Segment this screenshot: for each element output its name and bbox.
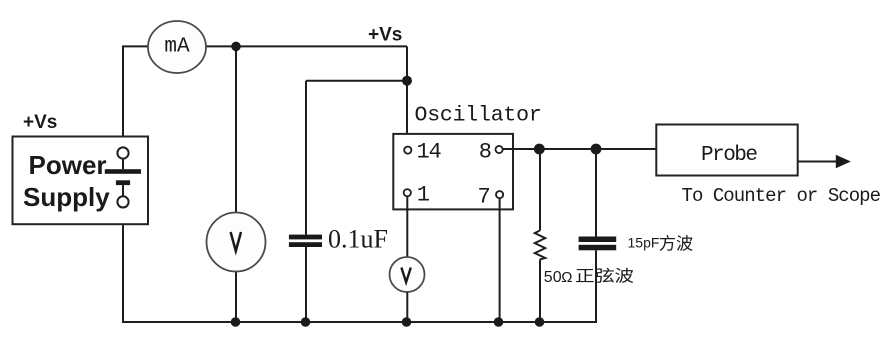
wire: +Vs vertical drop to oscillator pin 14 [406,46,408,146]
wire: resistor branch upper segment [539,149,541,230]
wire: top rail, left segment to ammeter [122,45,149,47]
svg-text:14: 14 [417,139,442,164]
pin 7 terminal [496,191,503,198]
wire: resistor branch lower segment [539,259,541,322]
svg-text:Ω: Ω [561,269,572,286]
ammeter M1 body [148,21,206,73]
svg-text:1: 1 [417,182,430,207]
capacitor C2 top plate [579,237,617,243]
node: output rail junction at capacitor branch [591,144,602,155]
node: bottom rail junction at pin 7 branch [494,317,504,327]
voltmeter M3 body (small) [390,257,425,292]
capacitor C1 top plate [289,235,322,240]
pin 1 terminal [404,189,411,196]
battery B1 positive plate [105,169,141,174]
wire: voltmeter branch upper segment [235,46,237,213]
wire: 0.1uF branch upper segment [305,81,307,235]
wire: small voltmeter to bottom rail [406,292,408,322]
voltmeter M2 body [207,213,266,272]
wire: battery plate to negative terminal [122,185,124,196]
wire: probe output lead [798,161,838,163]
svg-text:To Counter or Scope: To Counter or Scope [682,185,881,207]
capacitor C2 bottom plate [579,245,617,251]
svg-text:Oscillator: Oscillator [415,103,542,127]
arrowhead: probe output [836,155,851,168]
wire: voltmeter branch lower segment [235,271,237,323]
node: bottom rail junction at voltmeter branch [231,317,241,327]
node: bottom rail junction at resistor branch [535,317,545,327]
node: top rail junction at voltmeter branch [231,42,241,52]
wire: 15pF branch upper segment [595,149,597,237]
wire: bottom ground rail [122,321,596,323]
wire: left vertical from top rail down to power supply box [122,46,124,147]
label glyph zheng (sine wave) [576,269,594,282]
wire: top rail +Vs, ammeter to corner [205,45,407,47]
battery B1 negative plate [116,180,130,185]
svg-text:8: 8 [479,139,492,164]
wire: pin 7 down to bottom rail [499,198,501,322]
node: bottom rail junction at pin 1 branch [402,317,412,327]
resistor R1 zigzag [535,230,545,259]
capacitor C1 bottom plate [289,242,322,247]
wire: 0.1uF branch lower segment [305,247,307,322]
label glyph fang (square wave) [660,235,675,251]
terminal: power supply positive [117,147,128,158]
terminal: power supply negative [117,196,128,207]
svg-text:15pF: 15pF [628,234,660,250]
label glyph bo (square wave) [677,235,693,251]
svg-text:+Vs: +Vs [23,112,57,133]
svg-text:7: 7 [478,184,491,209]
svg-text:Power: Power [29,150,107,180]
node: output rail junction at resistor branch [534,144,545,155]
svg-text:50: 50 [544,269,562,286]
svg-text:0.1uF: 0.1uF [328,225,388,254]
svg-text:Probe: Probe [701,144,757,167]
label glyph bo (sine wave) [615,268,633,283]
power supply PS1 box [13,137,149,225]
wire: power supply lower lead to bottom rail [122,208,124,324]
wire: pin 1 down to small voltmeter [406,196,408,257]
svg-text:mA: mA [164,36,190,59]
label V (voltmeter M2) [231,232,241,251]
pin 14 terminal [404,147,411,154]
node: bottom rail junction at 0.1uF branch [301,317,311,327]
svg-text:+Vs: +Vs [368,25,402,46]
wire: 15pF branch lower segment [595,250,597,323]
oscillator U1 box [393,134,513,210]
wire: pin 8 output rail to probe [503,148,657,150]
wire: horizontal from 0.1uF branch to +Vs node [306,80,407,82]
pin 8 terminal [496,146,503,153]
wire: positive terminal to battery plate [122,159,124,170]
probe P1 box [656,125,797,176]
node: +Vs junction [402,76,412,86]
svg-text:Supply: Supply [23,182,110,212]
label glyph xian (sine wave) [596,268,614,283]
label V (voltmeter M3) [401,268,410,283]
